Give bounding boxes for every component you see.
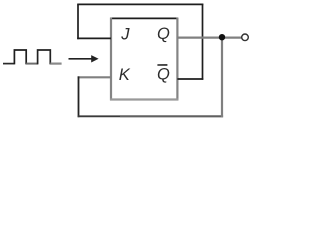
wire bottom feedback right vertical (Q to K) [221,38,223,118]
flip-flop box top edge [110,17,178,19]
clock waveform leading low segment [3,63,14,65]
wire top feedback left vertical [77,4,79,39]
clock arrow shaft [69,58,93,60]
flip-flop box right edge [176,18,178,101]
flip-flop box left edge [110,18,112,101]
wire bottom feedback horizontal (right part) [120,115,223,117]
wire Q-bar output [177,78,203,80]
wire bottom feedback horizontal [78,115,120,117]
svg-text:Q: Q [157,25,170,43]
wire K input (from bottom feedback to K) [78,76,111,78]
wire top feedback horizontal [77,3,203,5]
svg-text:J: J [120,26,130,44]
output terminal (open circle) [242,34,249,41]
clock waveform mid low segment [26,63,37,65]
svg-text:K: K [119,66,131,84]
wire bottom feedback left vertical [78,76,80,117]
clock arrow head [91,55,98,62]
svg-text:Q: Q [157,66,170,84]
clock waveform pulse 2 [38,50,51,64]
clock waveform pulse 1 [14,50,26,64]
junction dot [219,34,225,40]
flip-flop box bottom edge [110,98,178,100]
wire J input (from top feedback to J) [77,37,111,39]
wire Q output [177,36,241,38]
wire top feedback right vertical (Q-bar to top) [202,4,204,80]
overline of Q-bar [157,64,167,66]
clock waveform trailing low segment [50,62,61,64]
